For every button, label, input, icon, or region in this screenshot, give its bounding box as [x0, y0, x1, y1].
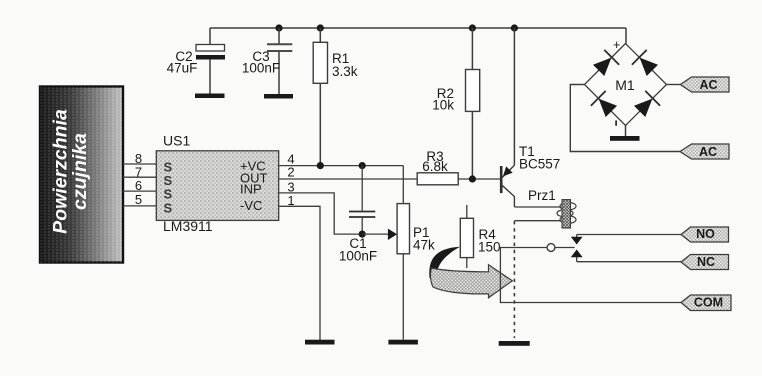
svg-text:100nF: 100nF	[339, 249, 377, 264]
diode D-topright	[640, 58, 658, 76]
wire T1 emitter riser	[513, 28, 515, 165]
diode D-topleft	[593, 58, 611, 76]
svg-text:+: +	[613, 38, 620, 52]
node base/R2 junction	[469, 175, 476, 182]
actuation arrow (decorative hatched arrow)	[429, 247, 512, 298]
wire pole to contacts	[555, 247, 575, 249]
minus tick	[615, 120, 617, 125]
svg-text:100nF: 100nF	[242, 61, 280, 76]
wire pin 3 (INP)	[279, 193, 363, 234]
svg-text:LM3911: LM3911	[163, 218, 213, 234]
diode D-bottomright	[634, 99, 652, 117]
svg-text:10k: 10k	[432, 98, 454, 113]
node top rail / R1 junction	[317, 24, 324, 31]
wire rail to bridge top	[625, 28, 627, 44]
wire bridge bottom to ground	[625, 126, 627, 137]
diode D-bottomleft	[599, 99, 617, 117]
wire collector to relay coil	[514, 206, 561, 208]
svg-text:S: S	[164, 173, 173, 188]
transistor T1 BC557	[501, 144, 560, 207]
IC US1 LM3911	[156, 133, 278, 235]
terminal COM	[681, 295, 731, 311]
svg-text:1: 1	[287, 193, 294, 208]
svg-text:INP: INP	[240, 182, 262, 197]
svg-text:5: 5	[135, 192, 142, 207]
svg-text:AC: AC	[699, 78, 717, 92]
svg-text:2: 2	[287, 165, 294, 180]
wire pin 1 (-VC) to ground	[279, 206, 320, 339]
terminal NC	[681, 255, 729, 270]
ground relay return	[499, 341, 530, 346]
svg-text:NC: NC	[697, 255, 715, 269]
wire sensor pin 7	[123, 176, 156, 178]
svg-text:47k: 47k	[413, 238, 435, 253]
wire top supply rail	[210, 27, 626, 29]
wire pin 4 (+VC)	[279, 165, 404, 167]
terminal NO	[681, 227, 729, 242]
terminal AC (lower)	[680, 144, 729, 159]
relay coil Prz1	[528, 188, 576, 228]
node pin4/R1 junction	[317, 162, 324, 169]
wire sensor pin 5	[123, 205, 156, 207]
node C1 bottom junction	[359, 231, 366, 238]
capacitor C2	[167, 28, 225, 94]
dashed relay linkage to ground	[513, 221, 515, 338]
bridge rectifier M1	[585, 38, 667, 126]
node top rail / R2 junction	[469, 24, 476, 31]
potentiometer P1	[362, 166, 435, 340]
svg-text:BC557: BC557	[519, 157, 560, 172]
wire NO	[577, 234, 681, 236]
wire NC	[577, 261, 681, 263]
svg-text:-VC: -VC	[240, 198, 262, 213]
node top rail / C3 junction	[275, 24, 282, 31]
capacitor C3	[242, 28, 292, 94]
resistor R3	[417, 149, 502, 185]
relay contact pole circle	[547, 244, 555, 252]
wire relay coil bottom return	[514, 220, 561, 222]
ground under C3	[264, 94, 293, 99]
svg-text:czujnika: czujnika	[69, 133, 91, 210]
svg-text:Prz1: Prz1	[528, 188, 556, 203]
wire sensor pin 8	[123, 163, 156, 165]
terminal AC (upper)	[680, 77, 729, 92]
resistor R1	[313, 28, 358, 166]
wire pin 2 (OUT) to R3	[279, 178, 418, 180]
svg-text:150: 150	[478, 240, 501, 255]
svg-text:US1: US1	[163, 133, 190, 149]
svg-text:6.8k: 6.8k	[422, 159, 448, 174]
wire sensor pin 6	[123, 190, 156, 192]
node top rail / T1 emitter junction	[511, 24, 518, 31]
node pin4/C1 junction	[359, 162, 366, 169]
ground pin1	[305, 340, 335, 345]
svg-text:M1: M1	[615, 77, 635, 93]
resistor R2	[432, 28, 479, 179]
ground under M1	[610, 136, 640, 141]
ground under C2	[195, 94, 225, 99]
resistor R4	[460, 205, 500, 268]
wire bridge left node to AC tag (lower)	[570, 85, 680, 152]
svg-text:47uF: 47uF	[167, 61, 198, 76]
ground under P1	[388, 340, 418, 345]
svg-text:NO: NO	[696, 227, 715, 241]
sensor surface box (Powierzchnia czujnika)	[40, 87, 123, 263]
contact NC arrow	[576, 257, 578, 262]
svg-text:3.3k: 3.3k	[332, 64, 358, 79]
svg-text:AC: AC	[699, 145, 717, 159]
capacitor C1	[339, 166, 377, 264]
svg-text:7: 7	[135, 164, 142, 179]
svg-text:S: S	[164, 200, 173, 215]
svg-text:COM: COM	[694, 296, 723, 310]
contact NO arrow	[576, 235, 578, 238]
wire bridge right node to AC tag	[667, 84, 681, 86]
wire pole to COM	[500, 248, 681, 303]
